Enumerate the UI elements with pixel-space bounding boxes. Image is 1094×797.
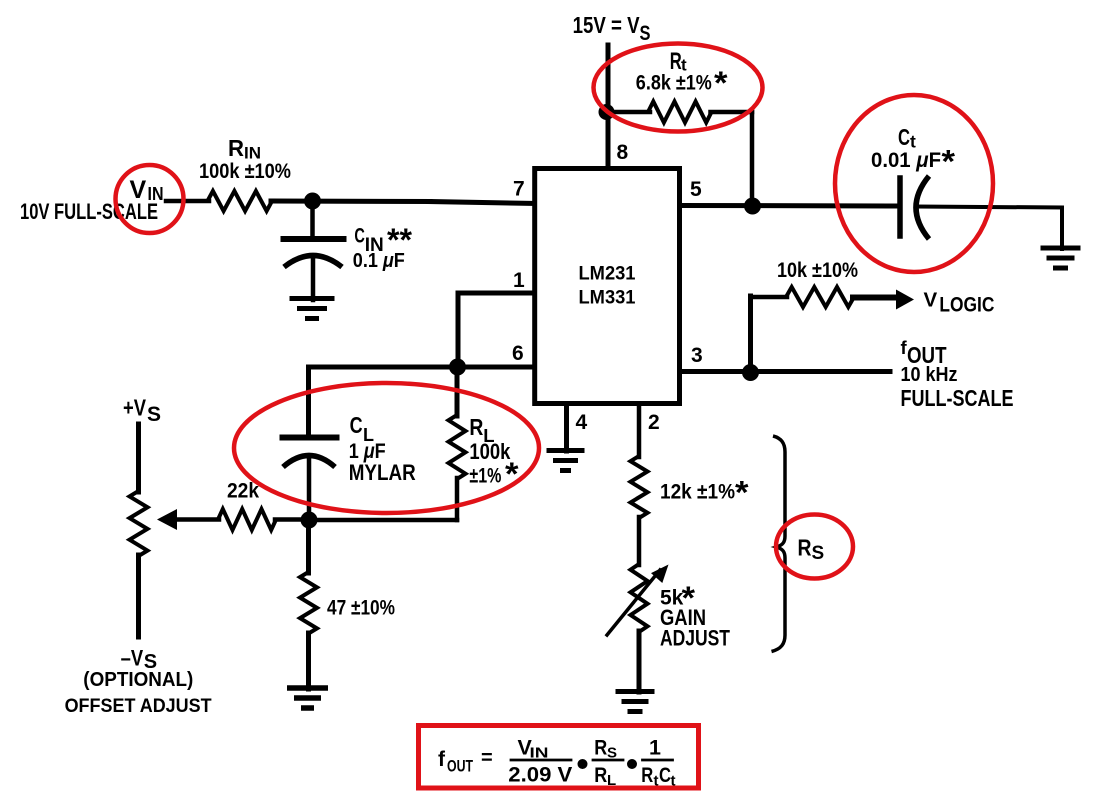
svg-text:4: 4: [576, 411, 588, 434]
svg-text:S: S: [812, 543, 825, 564]
svg-text:R: R: [798, 535, 812, 561]
svg-text:*: *: [942, 144, 956, 180]
svg-text:MYLAR: MYLAR: [349, 460, 416, 485]
svg-text:S: S: [147, 403, 161, 426]
svg-text:6: 6: [512, 342, 524, 365]
svg-text:2: 2: [648, 411, 660, 434]
svg-text:f: f: [438, 748, 446, 771]
svg-text:100k ±10%: 100k ±10%: [199, 160, 291, 183]
svg-text:±1%: ±1%: [469, 464, 501, 488]
svg-text:–V: –V: [121, 646, 144, 671]
svg-text:7: 7: [513, 178, 525, 201]
svg-text:C: C: [354, 225, 365, 248]
svg-text:10 kHz: 10 kHz: [901, 363, 958, 386]
svg-text:R: R: [469, 414, 483, 440]
svg-text:3: 3: [691, 344, 703, 367]
svg-text:LOGIC: LOGIC: [939, 293, 994, 317]
svg-text:15V = V: 15V = V: [573, 12, 641, 38]
svg-text:0.1 μF: 0.1 μF: [353, 249, 405, 272]
svg-text:LM331: LM331: [579, 288, 636, 309]
svg-text:(OPTIONAL): (OPTIONAL): [83, 668, 193, 691]
svg-text:V: V: [924, 289, 938, 312]
svg-text:C: C: [659, 763, 671, 787]
svg-text:R: R: [641, 763, 653, 787]
svg-text:C: C: [898, 124, 910, 150]
svg-text:6.8k ±1%: 6.8k ±1%: [636, 72, 712, 95]
svg-text:10V FULL-SCALE: 10V FULL-SCALE: [20, 199, 158, 224]
svg-text:1: 1: [513, 269, 525, 292]
svg-text:+V: +V: [123, 395, 147, 421]
svg-text:S: S: [640, 22, 651, 45]
svg-text:=: =: [481, 747, 493, 769]
svg-text:*: *: [714, 65, 728, 101]
svg-text:R: R: [594, 763, 607, 787]
svg-text:8: 8: [617, 141, 629, 164]
svg-text:0.01 μF: 0.01 μF: [871, 149, 941, 172]
svg-text:ADJUST: ADJUST: [660, 626, 730, 651]
svg-text:R: R: [594, 736, 607, 760]
svg-text:2.09 V: 2.09 V: [508, 763, 573, 787]
svg-text:*: *: [735, 475, 749, 511]
svg-text:R: R: [228, 135, 244, 161]
svg-text:OUT: OUT: [447, 757, 473, 776]
svg-text:47 ±10%: 47 ±10%: [327, 597, 395, 620]
svg-text:5: 5: [690, 178, 702, 201]
svg-text:10k ±10%: 10k ±10%: [777, 259, 858, 282]
svg-text:LM231: LM231: [579, 264, 636, 285]
svg-text:OFFSET ADJUST: OFFSET ADJUST: [65, 695, 212, 717]
svg-text:12k ±1%: 12k ±1%: [660, 481, 735, 504]
svg-text:C: C: [350, 412, 363, 438]
svg-text:1: 1: [649, 736, 661, 760]
svg-text:FULL-SCALE: FULL-SCALE: [901, 385, 1014, 411]
